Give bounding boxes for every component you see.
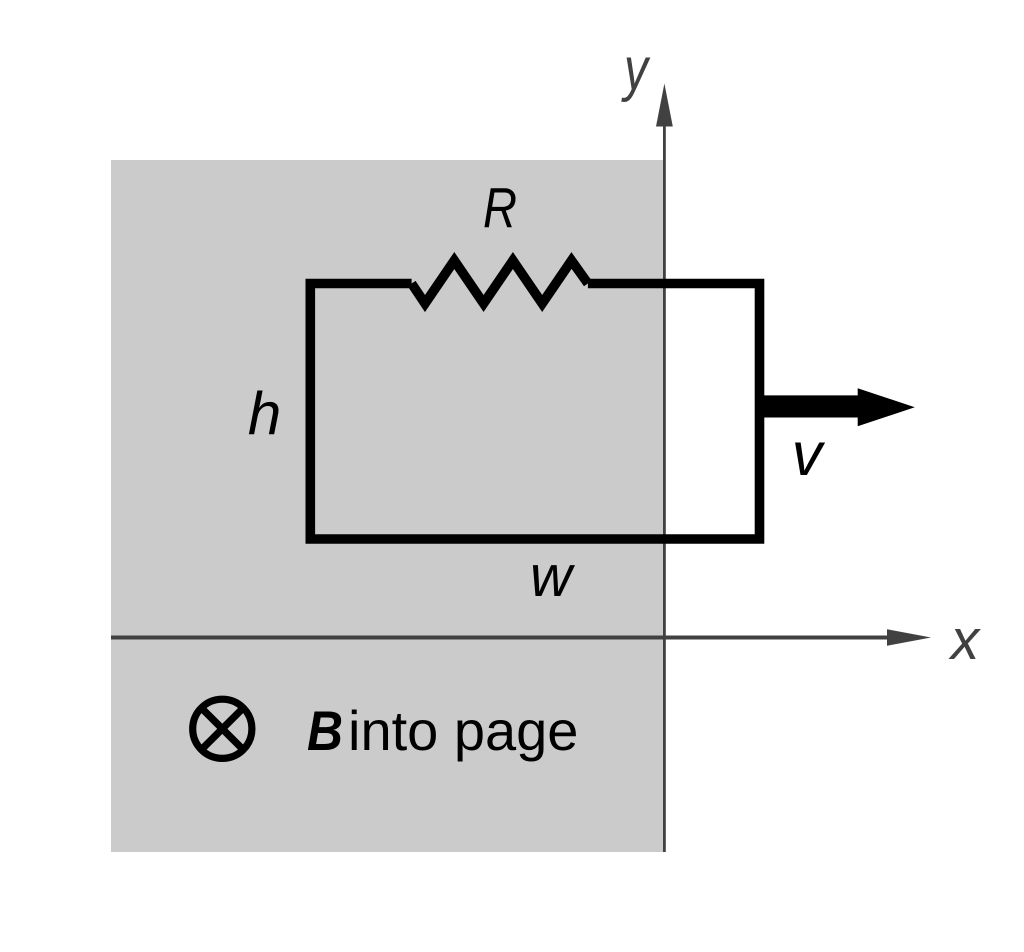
svg-text:R: R [483,176,517,240]
B into page symbol (circle with X) [193,699,252,758]
y-axis [656,84,673,853]
conducting loop (rectangle, gap on top for resistor) [310,284,759,540]
svg-text:w: w [530,544,575,609]
svg-text:y: y [621,36,651,103]
x-axis [111,629,931,646]
svg-text:B: B [307,699,343,762]
velocity arrow v [764,388,915,426]
svg-text:x: x [948,608,982,672]
svg-text:into page: into page [348,699,578,762]
svg-text:h: h [248,381,281,448]
svg-text:v: v [792,420,826,488]
resistor R (zigzag) [412,261,588,304]
field region (B into page, shaded) [111,160,663,852]
